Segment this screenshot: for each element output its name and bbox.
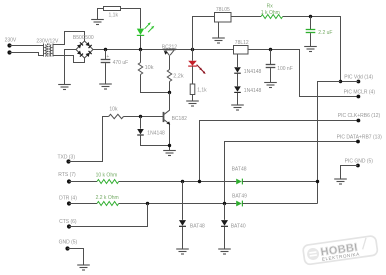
node 230V terminal N — [7, 50, 11, 54]
svg-text:78L05: 78L05 — [216, 7, 230, 13]
ground D4 — [231, 105, 244, 110]
regulator U2 78L12 — [234, 46, 249, 55]
ground bridge minus — [58, 85, 71, 90]
node GND terminal — [65, 246, 69, 250]
wire D5 to emitter — [141, 135, 170, 145]
label B50C500 right part — [85, 35, 94, 41]
ground R4 — [186, 101, 199, 106]
svg-text:470 uF: 470 uF — [113, 60, 129, 66]
label D8 BAT48 — [190, 224, 205, 230]
svg-text:1N4148: 1N4148 — [244, 69, 262, 75]
wire D8 to ground — [182, 227, 184, 249]
wire RTS to R6 — [69, 181, 97, 183]
svg-text:Rx: Rx — [267, 3, 274, 9]
transistor Q1 BC212 — [164, 50, 176, 70]
node RTS terminal — [67, 179, 71, 183]
node rail-D2 junction — [191, 48, 194, 51]
label PIC DATA+RB7 (13) — [337, 134, 383, 140]
wire PIC CLK line — [200, 121, 359, 182]
label PIC CLK+RB6 (12) — [338, 113, 381, 119]
svg-text:BAT48: BAT48 — [190, 224, 205, 230]
label Q1 BC212 — [162, 44, 178, 50]
wire Vdd to supply column — [318, 82, 341, 204]
svg-text:PIC GND (5): PIC GND (5) — [345, 158, 374, 164]
node U2out-C3 junction — [269, 48, 272, 51]
wire D9 column — [224, 204, 226, 220]
ground C2 — [304, 47, 317, 52]
label C1 470 uF — [113, 60, 129, 66]
resistor R3 2,2k — [167, 70, 171, 93]
wire D6 to supply column — [242, 181, 317, 183]
label R1 1,1k — [109, 12, 119, 18]
transistor Q2 BC182 — [164, 93, 171, 151]
diode D9 BAT40 — [221, 220, 228, 226]
diode D3 1N4148 — [234, 67, 241, 73]
svg-text:1,1k: 1,1k — [109, 12, 119, 18]
svg-text:BAT48: BAT48 — [232, 167, 247, 173]
ground serial GND — [77, 265, 90, 270]
svg-text:100 nF: 100 nF — [277, 66, 293, 72]
resistor Rx 1k — [261, 15, 283, 19]
diode bridge D-BL — [77, 51, 83, 57]
wire main DC rail — [93, 49, 234, 51]
label TXD (3) — [58, 154, 76, 160]
resistor R6 10 k Ohm — [97, 180, 119, 184]
ground D9 — [218, 249, 231, 254]
node emitter-D5 junction — [168, 144, 171, 147]
wire DATA row — [119, 203, 237, 205]
svg-text:PIC DATA+RB7 (13): PIC DATA+RB7 (13) — [337, 134, 383, 140]
wire 5V rail — [283, 17, 341, 82]
label B50C500 left part — [73, 35, 86, 41]
resistor R4 1,1k — [190, 84, 195, 101]
label R2 10k — [145, 65, 154, 71]
node R2-R3-collector junction — [168, 91, 171, 94]
svg-text:78L12: 78L12 — [235, 40, 249, 46]
resistor R1 1,1k — [98, 7, 141, 29]
svg-text:CTS (6): CTS (6) — [59, 219, 77, 225]
diode D5 1N4148 — [140, 117, 142, 129]
capacitor C3 100nF — [266, 50, 276, 83]
diode bridge D-TL — [77, 42, 83, 48]
wire mains top — [10, 45, 44, 47]
capacitor C1 470uF — [101, 50, 111, 84]
label TR1 230V/12V — [36, 38, 59, 44]
wire DTR to R7 — [69, 203, 97, 205]
wire GND — [68, 249, 84, 265]
label R6 10 k Ohm — [96, 173, 118, 179]
resistor R7 2.2 k Ohm — [97, 202, 119, 206]
label R4 1,1k — [197, 87, 207, 93]
label D9 BAT40 — [231, 224, 246, 230]
label D5 1N4148 — [147, 131, 165, 137]
label D3 1N4148 — [244, 69, 262, 75]
svg-text:BC212: BC212 — [162, 44, 178, 50]
transformer TR1 230V/12V — [44, 44, 54, 57]
label R5 10k — [109, 106, 118, 112]
svg-text:1,1k: 1,1k — [197, 87, 207, 93]
wire PIC DATA line — [225, 142, 359, 204]
wire CLK row — [119, 181, 237, 183]
label D6 BAT48 — [232, 167, 247, 173]
label PIC Vdd (14) — [344, 75, 373, 81]
wire D4 to ground — [237, 93, 239, 105]
wire mains bottom — [10, 53, 44, 56]
node Vdd junction — [339, 80, 342, 83]
regulator U1 78L05 — [215, 13, 232, 23]
LED D2 red — [188, 50, 205, 85]
svg-text:500: 500 — [85, 35, 94, 41]
node CTS terminal — [67, 224, 71, 228]
svg-text:BAT49: BAT49 — [232, 193, 247, 199]
svg-text:RTS (7): RTS (7) — [58, 172, 76, 178]
svg-text:2.2 k Ohm: 2.2 k Ohm — [96, 195, 119, 201]
svg-text:10k: 10k — [109, 106, 118, 112]
wire D3-D4 — [237, 73, 239, 86]
LED D1 green — [137, 22, 155, 49]
label PIC GND (5) — [345, 158, 374, 164]
diode D8 BAT48 — [179, 220, 186, 226]
svg-text:GND (5): GND (5) — [59, 240, 78, 246]
diode D7 BAT49 — [236, 201, 242, 207]
ground D8 — [176, 249, 189, 254]
svg-text:230V: 230V — [5, 38, 17, 44]
ground R1 — [91, 20, 104, 25]
svg-text:1 k Ohm: 1 k Ohm — [261, 10, 280, 16]
svg-text:2,2k: 2,2k — [173, 74, 184, 80]
svg-text:BAT40: BAT40 — [231, 224, 246, 230]
wire Vdd tee right — [341, 81, 359, 83]
wire CTS — [69, 204, 148, 227]
ground Q2 emitter — [163, 151, 176, 156]
wire U1 gnd pin — [218, 22, 220, 38]
logo watermark Hobbi Elektronika — [303, 235, 378, 265]
wire secondary bottom to bridge — [53, 56, 85, 63]
wire PIC GND — [341, 166, 358, 179]
node rail-D1 junction — [139, 48, 142, 51]
node PIC Vdd terminal — [357, 80, 361, 84]
svg-text:10 k Ohm: 10 k Ohm — [96, 173, 118, 179]
node 5V-C2 junction — [309, 15, 312, 18]
label 230V — [5, 38, 17, 44]
svg-text:BC182: BC182 — [172, 116, 188, 122]
label D7 BAT49 — [232, 193, 247, 199]
wire secondary top to bridge — [53, 32, 85, 45]
svg-text:+: + — [106, 54, 109, 60]
diode D4 1N4148 — [234, 86, 241, 92]
svg-text:B50C: B50C — [73, 35, 86, 41]
wire R5 to Q2 base — [124, 116, 164, 118]
node PIC DATA terminal — [356, 140, 360, 144]
label C2 2.2 uF — [318, 30, 332, 36]
label GND (5) — [59, 240, 78, 246]
node TXD terminal — [66, 159, 70, 163]
node clamp D8 junction — [181, 180, 184, 183]
node rail-C1 junction — [104, 48, 107, 51]
node PIC CLK terminal — [357, 119, 361, 123]
wire U1 output — [231, 16, 261, 18]
label Rx — [267, 3, 274, 9]
label C3 100 nF — [277, 66, 293, 72]
label R7 2.2 k Ohm — [96, 195, 119, 201]
node DATA riser junction — [223, 202, 226, 205]
node CLK riser junction — [198, 180, 201, 183]
label U2 78L12 — [235, 40, 249, 46]
svg-text:1N4148: 1N4148 — [244, 88, 262, 94]
svg-text:10k: 10k — [145, 65, 154, 71]
wire TXD to R5 — [69, 117, 109, 162]
label PIC MCLR (4) — [344, 89, 376, 95]
label U1 78L05 — [216, 7, 230, 13]
resistor R2 10k — [138, 50, 169, 93]
diode bridge D-TR — [86, 42, 92, 48]
diode bridge D-BR — [86, 51, 92, 57]
ground C3 — [264, 83, 277, 88]
svg-text:230V/12V: 230V/12V — [36, 38, 59, 44]
node supply column junction — [316, 180, 319, 183]
wire 78L05 riser — [193, 17, 215, 50]
diode D5 1N4148 body — [137, 129, 144, 135]
label RTS (7) — [58, 172, 76, 178]
node DTR terminal — [67, 201, 71, 205]
node PIC GND terminal — [356, 164, 360, 168]
label CTS (6) — [59, 219, 77, 225]
svg-text:1N4148: 1N4148 — [147, 131, 165, 137]
resistor R5 10k — [109, 114, 124, 118]
node Q2 base junction — [139, 115, 142, 118]
label Q2 BC182 — [172, 116, 188, 122]
svg-text:DTR (4): DTR (4) — [59, 196, 77, 202]
svg-text:PIC Vdd (14): PIC Vdd (14) — [344, 75, 373, 81]
ground U1 — [212, 38, 225, 43]
svg-text:PIC CLK+RB6 (12): PIC CLK+RB6 (12) — [338, 113, 381, 119]
node PIC MCLR terminal — [357, 95, 361, 99]
wire U2 gnd pin — [237, 54, 239, 67]
svg-text:TXD (3): TXD (3) — [58, 154, 76, 160]
wire bridge minus to ground — [65, 50, 77, 85]
svg-text:PIC MCLR (4): PIC MCLR (4) — [344, 89, 376, 95]
wire D8 column — [182, 182, 184, 220]
wire D7 to supply column — [242, 203, 317, 205]
wire U2 output to MCLR — [248, 50, 358, 97]
label Rx 1 k Ohm — [261, 10, 280, 16]
label D4 1N4148 — [244, 88, 262, 94]
capacitor C2 2.2uF — [306, 17, 316, 47]
bridge rectifier B50C500 — [76, 41, 93, 58]
svg-text:2.2 uF: 2.2 uF — [318, 30, 332, 36]
ground C1 — [99, 84, 112, 89]
ground PIC GND — [334, 179, 347, 184]
wire D9 to ground — [224, 227, 226, 249]
node 230V terminal L — [7, 43, 11, 47]
label R3 2,2k — [173, 74, 184, 80]
node CTS junction — [146, 202, 149, 205]
label DTR (4) — [59, 196, 77, 202]
diode D6 BAT48 — [236, 179, 242, 185]
